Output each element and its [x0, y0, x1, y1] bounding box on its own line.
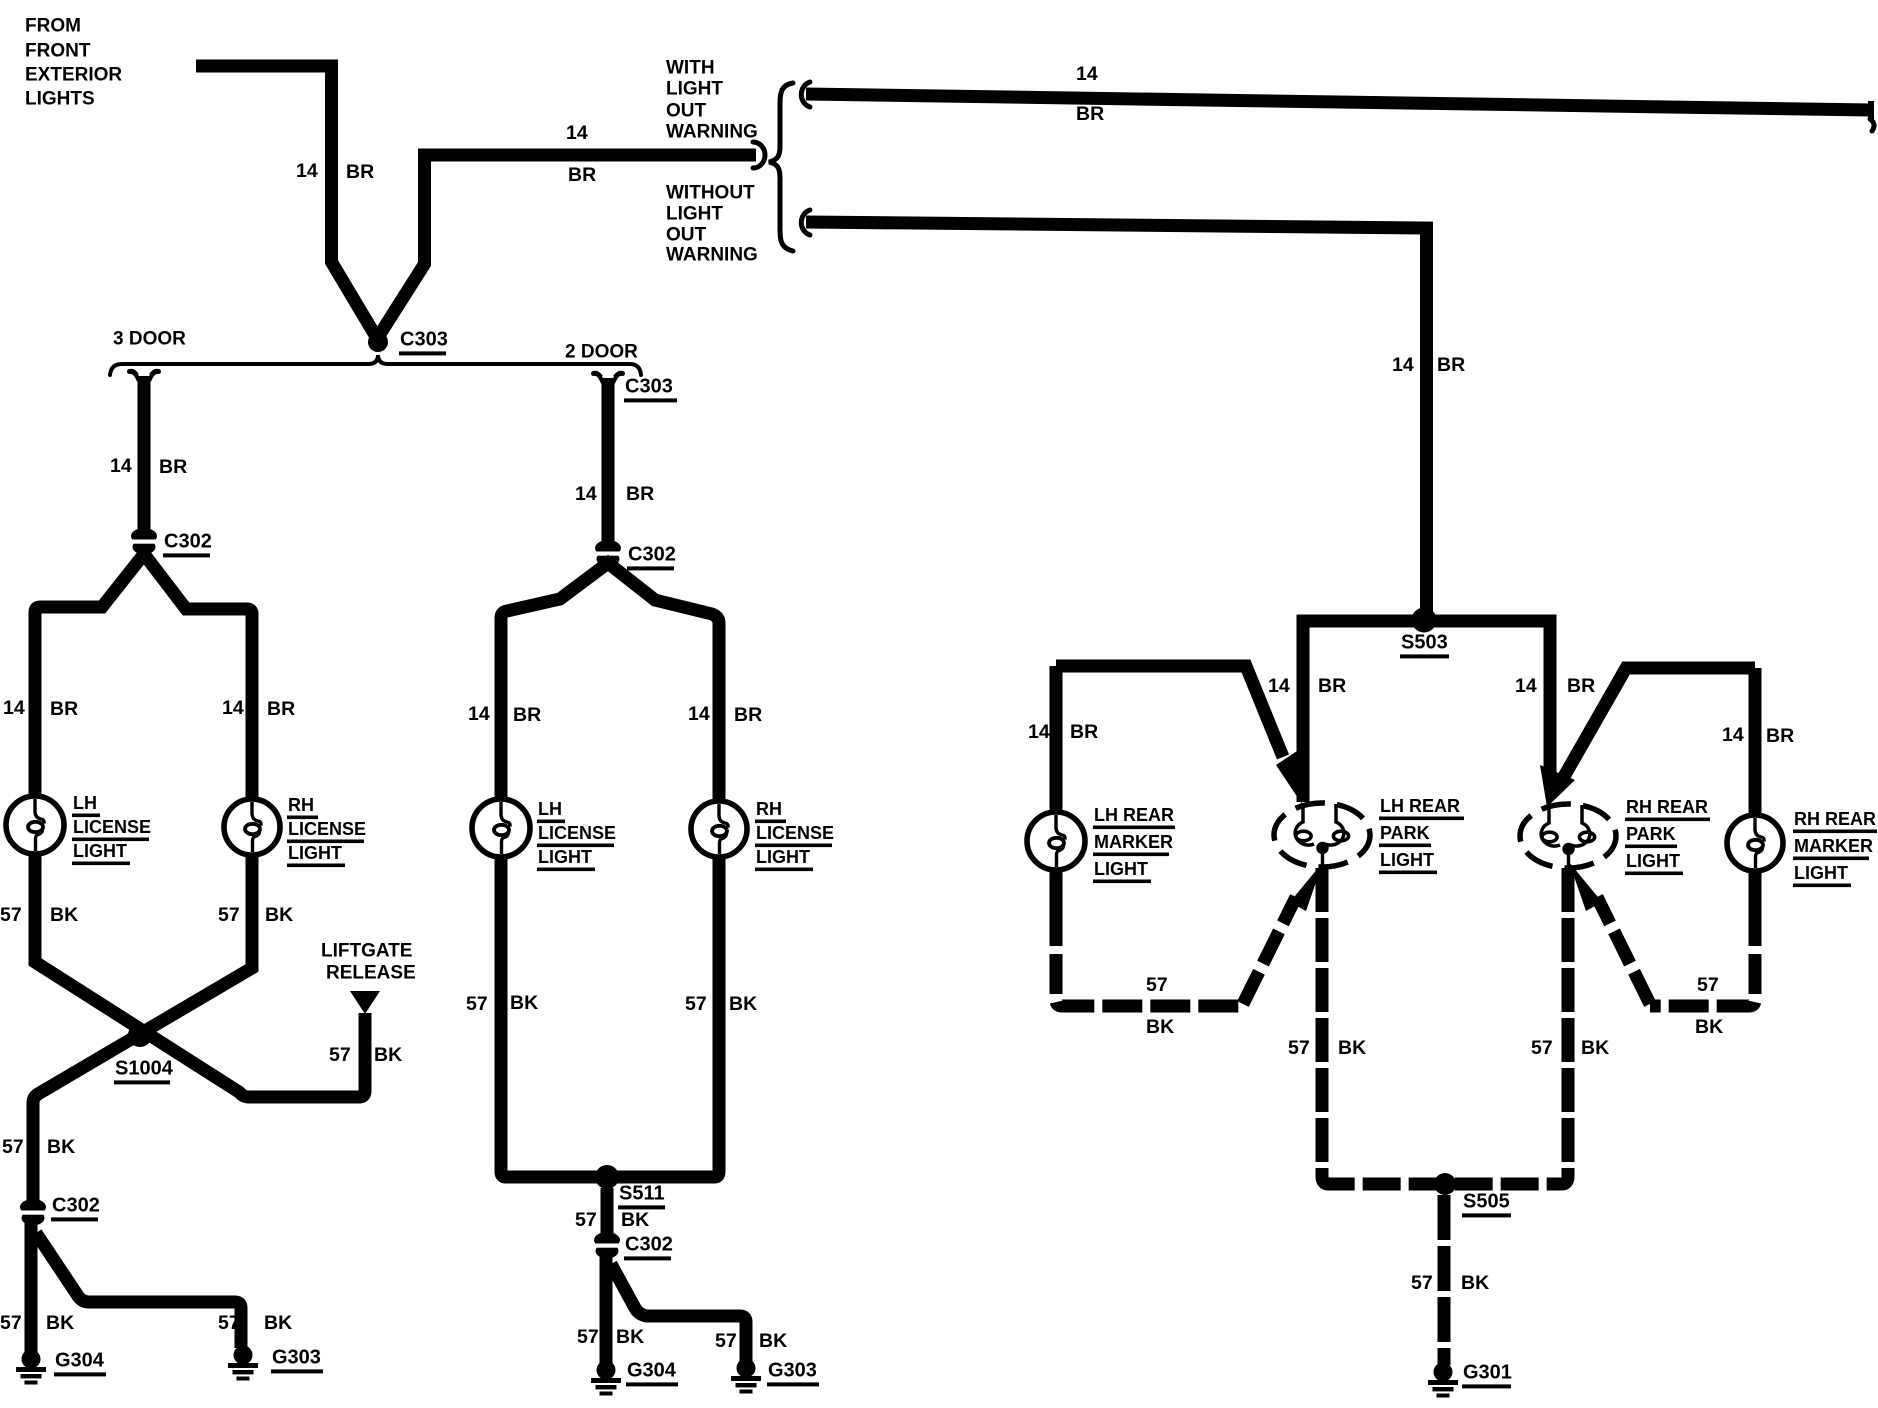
svg-text:BK: BK [1695, 1016, 1723, 1038]
label C302 (3door lower) [51, 1194, 100, 1221]
svg-text:BK: BK [1338, 1037, 1366, 1059]
svg-text:BR: BR [513, 704, 541, 726]
svg-text:RH REAR: RH REAR [1626, 797, 1708, 817]
svg-text:LICENSE: LICENSE [73, 817, 151, 837]
svg-text:14: 14 [688, 703, 710, 725]
wire: LH marker ground dashed to corner [1056, 906, 1243, 1006]
splice S505 [1434, 1173, 1456, 1195]
curl at left end of WITH-warning wire [801, 82, 810, 107]
label S505 [1462, 1190, 1511, 1217]
svg-text:14: 14 [222, 697, 244, 719]
svg-text:C303: C303 [400, 328, 448, 350]
svg-text:C302: C302 [628, 543, 676, 565]
svg-text:14: 14 [3, 697, 25, 719]
arrowhead into LH rear park light [1276, 751, 1302, 804]
wire: RH rear marker rail [1558, 668, 1755, 787]
svg-text:14: 14 [1722, 724, 1744, 746]
svg-text:BR: BR [626, 483, 654, 505]
wire: WITHOUT light out warning (14 BR) down to S503 [806, 222, 1427, 614]
svg-text:G304: G304 [627, 1359, 677, 1381]
wire: RH park ground dashed [1562, 868, 1575, 1176]
svg-text:57: 57 [218, 904, 240, 926]
wire: dashed ground bus to S505 [1322, 1176, 1568, 1184]
svg-text:OUT: OUT [666, 225, 707, 246]
svg-text:LH REAR: LH REAR [1094, 805, 1174, 825]
svg-text:LIGHT: LIGHT [1380, 850, 1434, 870]
wire: LH marker ground (solid stub) [1050, 870, 1063, 908]
ground G303 (2 door) [731, 1359, 761, 1394]
svg-text:FROM: FROM [25, 16, 81, 37]
svg-text:RH: RH [288, 795, 314, 815]
svg-text:BK: BK [621, 1209, 649, 1231]
svg-text:14: 14 [110, 455, 132, 477]
label G303 (3door) [271, 1346, 323, 1373]
bulb: LH license light (2 door) [472, 799, 530, 857]
svg-text:LICENSE: LICENSE [538, 823, 616, 843]
curl at wire end before brace [753, 142, 765, 168]
svg-text:G303: G303 [272, 1346, 321, 1368]
wire: dashed diagonal LH park to marker ground [1243, 897, 1296, 1004]
wire: 2-door feed 14 BR [602, 378, 615, 545]
liftgate release terminal triangle [350, 991, 380, 1014]
svg-text:BR: BR [1437, 354, 1465, 376]
svg-text:14: 14 [1392, 354, 1414, 376]
bulb: LH license light (3 door) [6, 796, 64, 854]
svg-text:LIGHT: LIGHT [756, 847, 810, 867]
svg-text:LIGHT: LIGHT [538, 847, 592, 867]
svg-text:LIGHTS: LIGHTS [25, 89, 95, 110]
svg-text:57: 57 [2, 1136, 24, 1158]
svg-text:BK: BK [374, 1044, 402, 1066]
connector C302 (3 door lower) [18, 1199, 49, 1226]
svg-text:LIGHT: LIGHT [1094, 859, 1148, 879]
svg-text:LIGHT: LIGHT [1626, 851, 1680, 871]
label RH LICENSE LIGHT (3 door) [287, 795, 366, 867]
svg-text:OUT: OUT [666, 101, 707, 122]
svg-text:LH: LH [538, 799, 562, 819]
svg-text:C302: C302 [164, 530, 212, 552]
wire: dashed diagonal RH park to marker ground [1597, 897, 1650, 1004]
svg-text:RELEASE: RELEASE [326, 963, 416, 984]
svg-text:14: 14 [566, 122, 588, 144]
svg-text:LIGHT: LIGHT [1794, 863, 1848, 883]
svg-text:PARK: PARK [1626, 824, 1676, 844]
svg-text:14: 14 [468, 703, 490, 725]
svg-text:57: 57 [0, 904, 22, 926]
svg-text:LIGHT: LIGHT [288, 843, 342, 863]
connector C302 (2 door upper) [593, 540, 624, 567]
svg-text:G303: G303 [768, 1359, 817, 1381]
svg-text:57: 57 [1697, 974, 1719, 996]
label RH REAR PARK LIGHT [1625, 797, 1710, 875]
wire: 2-door ground bus [501, 857, 719, 1177]
wire: LH rear marker rail [1056, 666, 1283, 757]
svg-text:2 DOOR: 2 DOOR [565, 342, 638, 363]
svg-text:BR: BR [159, 456, 187, 478]
svg-text:14: 14 [1028, 721, 1050, 743]
wire: lower C302 to G304 [25, 1222, 38, 1352]
svg-text:14: 14 [575, 483, 597, 505]
ground G303 (3 door) [228, 1346, 258, 1381]
svg-text:57: 57 [218, 1312, 240, 1334]
label RH LICENSE LIGHT (2 door) [755, 799, 834, 871]
wire: 3-door feed 14 BR [138, 376, 151, 533]
bulb: RH rear marker light [1727, 815, 1783, 871]
svg-text:BR: BR [734, 704, 762, 726]
svg-text:57: 57 [1411, 1272, 1433, 1294]
svg-text:BK: BK [1581, 1037, 1609, 1059]
svg-text:57: 57 [0, 1312, 22, 1334]
label S503 [1400, 631, 1449, 658]
svg-text:LH REAR: LH REAR [1380, 796, 1460, 816]
svg-text:RH: RH [756, 799, 782, 819]
svg-text:S1004: S1004 [115, 1057, 174, 1079]
svg-text:57: 57 [715, 1330, 737, 1352]
svg-text:MARKER: MARKER [1094, 832, 1173, 852]
label S511 [618, 1182, 665, 1209]
svg-text:BK: BK [616, 1326, 644, 1348]
ground G301 [1428, 1363, 1458, 1398]
svg-text:BK: BK [759, 1330, 787, 1352]
wire: LH park ground dashed [1316, 868, 1329, 1176]
label G304 (3door) [54, 1349, 106, 1376]
svg-text:57: 57 [575, 1209, 597, 1231]
svg-text:LIGHT: LIGHT [666, 204, 723, 225]
wire: S503 rail with drops to park lights [1303, 621, 1550, 802]
svg-text:WARNING: WARNING [666, 245, 758, 266]
label C302 (2door upper) [627, 543, 676, 570]
svg-text:14: 14 [1076, 63, 1098, 85]
wire: V right side up to horizontal run toward warning options [375, 155, 756, 342]
svg-text:FRONT: FRONT [25, 41, 91, 62]
label LH LICENSE LIGHT (2 door) [537, 799, 616, 871]
bulb: LH rear marker light [1027, 812, 1085, 870]
splice dot at C303 V-point [368, 332, 388, 352]
wire: lower C302 to G304 (2 door) [600, 1255, 613, 1363]
svg-text:BR: BR [1318, 675, 1346, 697]
arrowhead into RH rear park light [1540, 765, 1575, 807]
svg-text:LH: LH [73, 793, 97, 813]
wire: RH marker drop [1749, 668, 1762, 815]
svg-text:MARKER: MARKER [1794, 836, 1873, 856]
connector C303 (3 door, female Y) [130, 371, 159, 388]
arrowhead into LH park connector bottom [1290, 862, 1323, 911]
label LH REAR MARKER LIGHT [1093, 805, 1175, 883]
svg-text:BK: BK [265, 904, 293, 926]
svg-text:LICENSE: LICENSE [288, 819, 366, 839]
svg-text:LIGHT: LIGHT [666, 79, 723, 100]
svg-text:RH REAR: RH REAR [1794, 809, 1876, 829]
svg-text:BK: BK [47, 1136, 75, 1158]
svg-text:BK: BK [1146, 1016, 1174, 1038]
wire: S511 to C302 [601, 1188, 614, 1237]
splice S503 [1412, 608, 1437, 633]
svg-text:BR: BR [346, 161, 374, 183]
svg-text:BK: BK [46, 1312, 74, 1334]
svg-text:BK: BK [729, 993, 757, 1015]
label S1004 [114, 1057, 174, 1084]
svg-text:57: 57 [685, 993, 707, 1015]
connector C303 (2 door, female Y) [594, 373, 623, 390]
svg-text:BK: BK [1461, 1272, 1489, 1294]
label C302 (2door lower) [624, 1233, 673, 1260]
wire: feed from front exterior lights (14 BR) [196, 66, 378, 340]
wire: lower C302 branch to G303 (2 door) [611, 1264, 746, 1361]
svg-text:BR: BR [267, 698, 295, 720]
svg-text:EXTERIOR: EXTERIOR [25, 65, 122, 86]
svg-text:BK: BK [264, 1312, 292, 1334]
svg-text:S511: S511 [619, 1182, 665, 1204]
wire: LH license ground to liftgate-release branch (crosses) [35, 854, 365, 1097]
end bar at right edge [1868, 101, 1874, 120]
wire: RH license ground crossing to lower C302 [33, 855, 252, 1203]
bulb: RH license light (3 door) [224, 799, 280, 855]
wire: WITH light out warning (14 BR) to right edge [806, 94, 1871, 110]
svg-text:57: 57 [1146, 974, 1168, 996]
label RH REAR MARKER LIGHT [1793, 809, 1877, 887]
wire: split from C302 to LH and RH license lights (2 door) [501, 563, 719, 801]
svg-text:BR: BR [1766, 725, 1794, 747]
svg-text:LICENSE: LICENSE [756, 823, 834, 843]
svg-text:14: 14 [1268, 675, 1290, 697]
ground G304 (2 door) [591, 1361, 621, 1396]
wire: split from C302 to LH and RH license lights [35, 554, 252, 799]
svg-text:BR: BR [1070, 721, 1098, 743]
arrowhead into RH park connector bottom [1569, 862, 1602, 911]
svg-text:G301: G301 [1463, 1361, 1512, 1383]
svg-text:BR: BR [50, 698, 78, 720]
label LH LICENSE LIGHT (3 door) [72, 793, 151, 865]
bulb: RH license light (2 door) [691, 801, 747, 857]
svg-text:WITHOUT: WITHOUT [666, 183, 755, 204]
svg-text:C303: C303 [625, 375, 673, 397]
label LH REAR PARK LIGHT [1379, 796, 1464, 874]
svg-text:BK: BK [50, 904, 78, 926]
svg-text:BR: BR [568, 164, 596, 186]
svg-text:WARNING: WARNING [666, 122, 758, 143]
svg-text:LIFTGATE: LIFTGATE [321, 941, 412, 962]
svg-text:3 DOOR: 3 DOOR [113, 329, 186, 350]
wire: LH marker drop [1050, 666, 1063, 812]
connector C302 (3 door upper) [129, 528, 160, 555]
horizontal brace for 3-door / 2-door options [110, 355, 641, 375]
svg-text:BR: BR [1076, 103, 1104, 125]
svg-text:57: 57 [329, 1044, 351, 1066]
svg-text:LIGHT: LIGHT [73, 841, 127, 861]
label G304 (2door) [626, 1359, 678, 1386]
label G301 [1462, 1361, 1512, 1388]
svg-text:C302: C302 [625, 1233, 673, 1255]
connector: LH rear park light (dual bulb) [1274, 803, 1370, 867]
wire: lower C302 branch to G303 [36, 1233, 241, 1348]
svg-text:57: 57 [1531, 1037, 1553, 1059]
svg-text:WITH: WITH [666, 58, 715, 79]
svg-text:PARK: PARK [1380, 823, 1430, 843]
splice S511 [595, 1165, 619, 1189]
wire: S505 to G301 (dashed) [1438, 1195, 1451, 1365]
svg-text:14: 14 [1515, 675, 1537, 697]
svg-text:14: 14 [296, 160, 318, 182]
svg-text:G304: G304 [55, 1349, 105, 1371]
label G303 (2door) [767, 1359, 819, 1386]
label C303 (center) [399, 328, 448, 355]
splice S1004 at crossing [128, 1023, 152, 1047]
svg-text:57: 57 [577, 1326, 599, 1348]
svg-text:BK: BK [510, 992, 538, 1014]
svg-text:S503: S503 [1401, 631, 1448, 653]
svg-text:C302: C302 [52, 1194, 100, 1216]
hook at right end [1870, 119, 1874, 131]
brace { for with/without options [769, 83, 793, 251]
wire: RH marker ground (solid stub) [1749, 871, 1762, 908]
connector C302 (2 door lower) [592, 1232, 623, 1259]
svg-text:57: 57 [1288, 1037, 1310, 1059]
svg-text:57: 57 [466, 993, 488, 1015]
ground G304 (3 door) [16, 1350, 46, 1385]
svg-text:S505: S505 [1463, 1190, 1510, 1212]
curl at left end of WITHOUT-warning wire [801, 210, 810, 235]
wire: RH marker ground dashed to corner [1650, 906, 1755, 1006]
svg-text:BR: BR [1567, 675, 1595, 697]
label C302 (3door upper) [163, 530, 212, 557]
connector: RH rear park light (dual bulb) [1520, 804, 1616, 868]
label C303 (2 door) [624, 375, 677, 402]
